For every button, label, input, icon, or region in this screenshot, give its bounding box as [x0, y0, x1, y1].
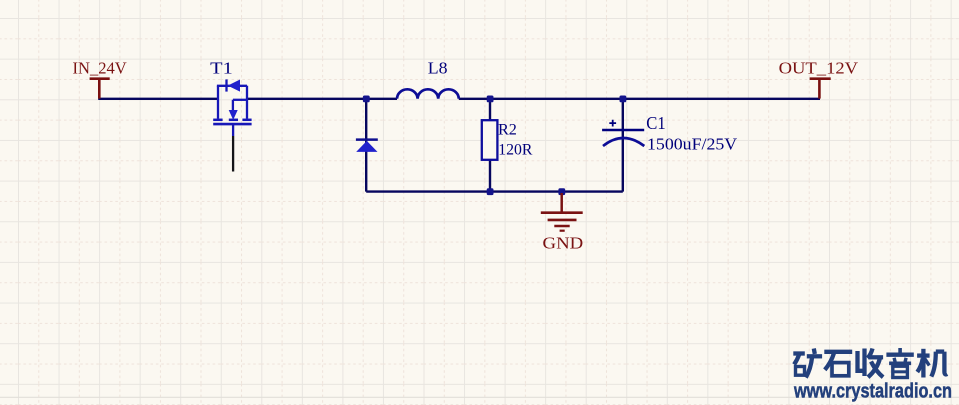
svg-text:T1: T1 — [210, 59, 233, 78]
svg-text:IN_24V: IN_24V — [73, 58, 128, 77]
svg-text:120R: 120R — [498, 141, 532, 159]
svg-text:OUT_12V: OUT_12V — [779, 58, 859, 77]
svg-text:L8: L8 — [428, 59, 448, 78]
svg-text:C1: C1 — [646, 113, 665, 133]
svg-text:1500uF/25V: 1500uF/25V — [647, 134, 737, 153]
svg-text:GND: GND — [543, 233, 584, 252]
svg-text:www.crystalradio.cn: www.crystalradio.cn — [793, 380, 952, 403]
svg-text:R2: R2 — [498, 120, 517, 138]
